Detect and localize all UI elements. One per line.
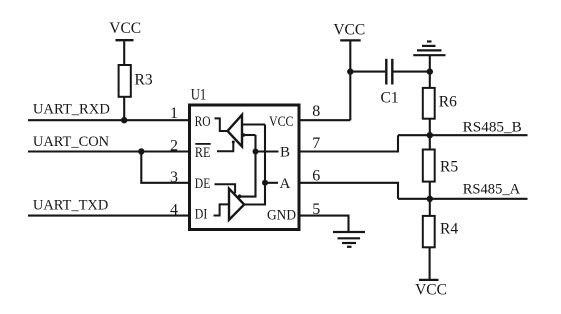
svg-text:R3: R3: [135, 72, 153, 89]
wire net A vertical: [245, 125, 266, 205]
svg-text:RE: RE: [195, 145, 211, 161]
wire UART_CON to pin 2: [28, 150, 190, 152]
svg-text:4: 4: [170, 202, 178, 219]
wire DI to driver input: [214, 204, 229, 215]
node junction VCC / C1: [347, 68, 353, 74]
svg-text:2: 2: [170, 137, 178, 154]
wire RS485_A bus: [398, 198, 528, 200]
wire R6 to RS485_B line: [429, 119, 431, 136]
svg-text:C1: C1: [381, 90, 399, 107]
wire receiver input B (lower) to B net: [242, 134, 256, 136]
svg-text:7: 7: [312, 135, 320, 152]
wire pin 6 to RS485_A line: [300, 183, 398, 199]
svg-text:DE: DE: [195, 176, 211, 192]
wire receiver input A (upper) to A net: [242, 123, 265, 125]
wire RE enable to receiver: [217, 143, 233, 152]
wire RO to receiver output: [215, 118, 228, 131]
wire pin 8 to VCC rail: [300, 119, 350, 121]
wire VCC to C1: [350, 71, 385, 73]
svg-text:UART_TXD: UART_TXD: [33, 197, 108, 213]
svg-text:RS485_B: RS485_B: [463, 119, 522, 135]
node junction C1 / ground / R6: [427, 68, 433, 74]
wire R3 to UART_RXD line: [123, 97, 125, 120]
wire UART_CON branch to pin 3: [141, 152, 189, 183]
svg-text:U1: U1: [191, 86, 207, 103]
resistor R4: [423, 216, 459, 247]
svg-text:RS485_A: RS485_A: [463, 181, 521, 197]
resistor R5: [423, 150, 459, 182]
svg-text:B: B: [280, 144, 290, 160]
svg-text:VCC: VCC: [109, 20, 141, 37]
svg-text:GND: GND: [267, 208, 296, 224]
transistor driver buffer (triangle pointing right): [229, 189, 244, 220]
wire net A to pin 6: [265, 182, 278, 184]
svg-text:R6: R6: [439, 94, 457, 111]
power symbol VCC (bottom): [415, 280, 447, 299]
ground (top right, earth symbol above wire): [413, 42, 445, 72]
svg-text:UART_CON: UART_CON: [33, 134, 110, 150]
wire pin 5 to ground: [300, 216, 349, 232]
svg-text:8: 8: [312, 103, 320, 120]
svg-text:VCC: VCC: [333, 21, 365, 38]
node RE enable tip: [232, 141, 235, 144]
wire RS485_A to R4: [429, 199, 431, 216]
svg-text:RO: RO: [195, 114, 211, 130]
wire net B vertical: [240, 135, 256, 197]
svg-text:DI: DI: [195, 207, 208, 223]
wire C1 to ground node: [393, 71, 429, 73]
svg-text:UART_RXD: UART_RXD: [33, 101, 110, 117]
svg-text:VCC: VCC: [269, 114, 294, 130]
wire R4 to bottom VCC: [429, 247, 431, 280]
node junction UART_CON branch: [138, 148, 144, 154]
power symbol VCC (top middle): [333, 21, 365, 120]
node junction R3 / pin1: [121, 117, 127, 123]
wire R5 to RS485_A line: [429, 182, 431, 199]
node driver B output: [238, 194, 242, 198]
wire RS485_B bus: [398, 134, 528, 136]
svg-text:A: A: [280, 176, 291, 192]
op-amp U1 (RS485 transceiver IC body): [190, 86, 300, 229]
svg-text:VCC: VCC: [415, 282, 447, 299]
svg-text:1: 1: [170, 105, 178, 122]
wire UART_RXD to pin 1: [28, 119, 190, 121]
wire RS485_B to R5: [429, 135, 431, 149]
svg-text:R5: R5: [440, 159, 458, 176]
receiver buffer (triangle pointing left): [228, 115, 243, 147]
svg-text:R4: R4: [440, 221, 458, 238]
wire ground node to R6: [429, 72, 431, 88]
wire pin 7 to RS485_B line: [300, 135, 398, 151]
node junction RS485_A: [427, 196, 433, 202]
resistor R6: [423, 88, 457, 119]
svg-text:3: 3: [170, 169, 178, 186]
ground (pin 5 earth symbol): [333, 232, 365, 247]
power symbol VCC (top left): [109, 20, 141, 65]
pin label RE (pin 2, active low): [195, 144, 211, 161]
node junction B: [253, 149, 259, 155]
node junction A: [262, 180, 268, 186]
node receiver B input: [242, 133, 246, 137]
node junction RS485_B: [427, 132, 433, 138]
wire net B to pin 7: [256, 150, 279, 152]
capacitor C1: [381, 59, 399, 107]
resistor R3: [119, 65, 153, 97]
wire DE enable to driver: [215, 184, 236, 193]
wire UART_TXD to pin 4: [28, 215, 190, 217]
